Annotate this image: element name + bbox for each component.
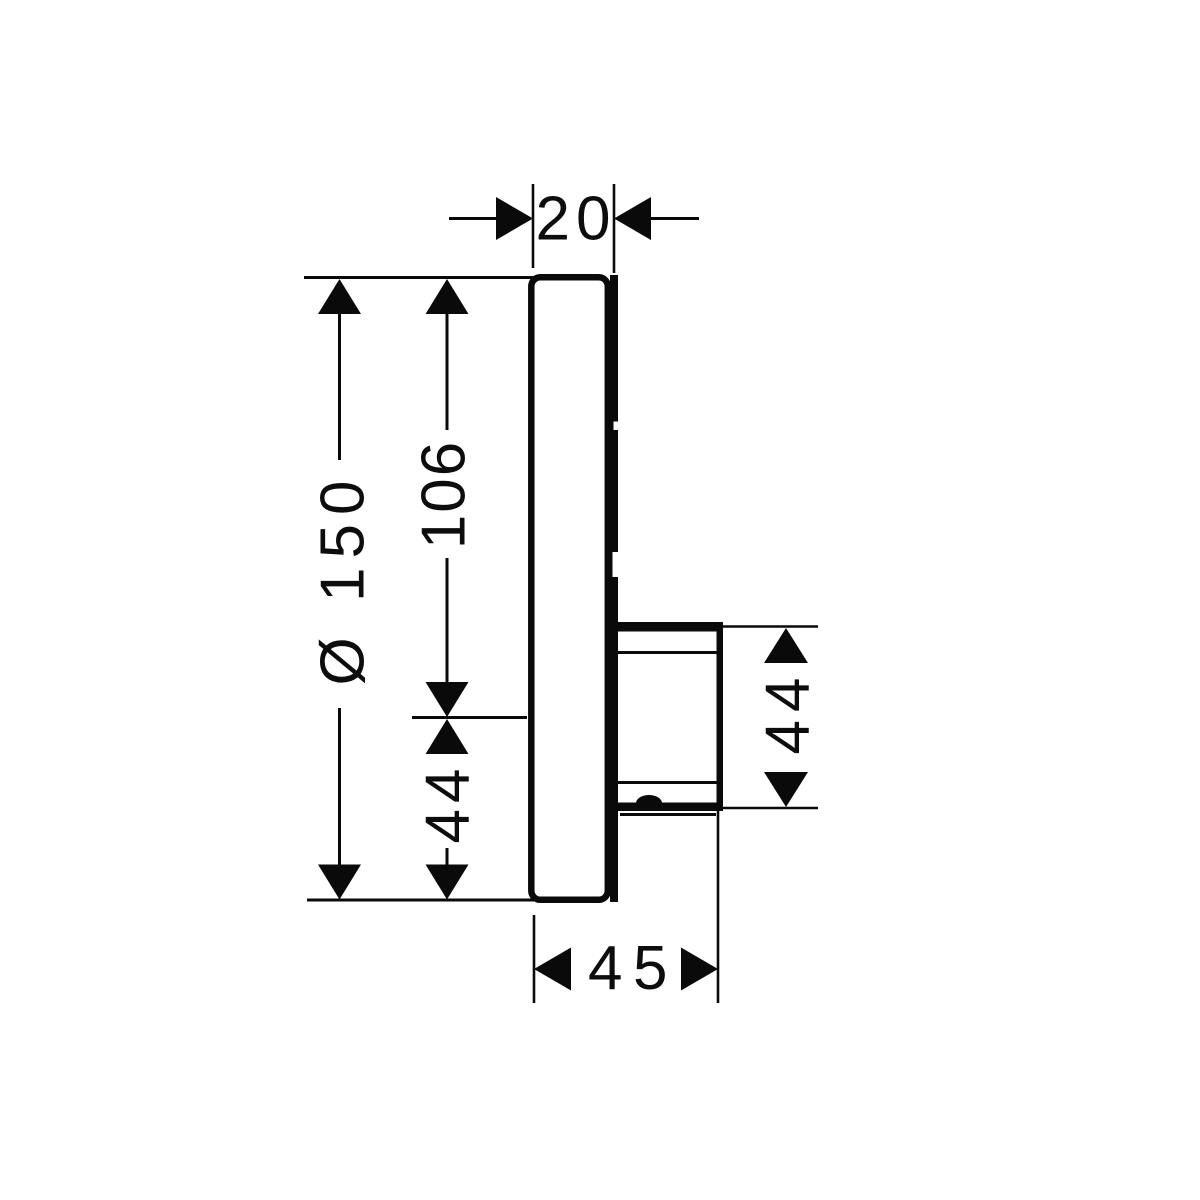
bottom extension line left dims (307, 899, 548, 902)
dim 44 right bottom extension line (723, 807, 818, 810)
svg-text:Ø 150: Ø 150 (309, 472, 378, 686)
center reference line (412, 716, 527, 719)
dim 20 right extension line (613, 184, 616, 273)
dim 150 lower line (338, 708, 341, 868)
strip notch lower (613, 552, 619, 577)
plate back strip (610, 275, 618, 902)
dim 44 right top extension line (723, 625, 818, 628)
body box bottom edge (618, 803, 719, 812)
dim 106 lower line (446, 558, 449, 683)
dim 150 upper line (338, 296, 341, 460)
escutcheon plate outline (531, 277, 608, 900)
dim 106 upper line (446, 296, 449, 430)
svg-text:44: 44 (754, 670, 823, 755)
dim 20 left lead line (449, 217, 497, 220)
dim 106 top arrow (426, 279, 469, 314)
dim 44 left bottom arrow (426, 865, 469, 900)
dim 20 left arrow (496, 197, 533, 240)
dim 150 top arrow (318, 279, 361, 314)
body box under line (620, 813, 716, 816)
dim 44 right down arrow (764, 772, 808, 807)
dim 106 bottom arrow (426, 682, 469, 717)
body box right edge (717, 622, 724, 811)
strip notch upper (614, 422, 619, 431)
body box top edge (612, 622, 723, 632)
body box bump detail (636, 795, 662, 803)
dim 45 left arrow (534, 948, 571, 991)
dim 45 right arrow (681, 948, 718, 991)
dim 44 left top arrow (426, 719, 469, 754)
dim 20 right arrow (614, 197, 651, 240)
body box inner line upper (618, 651, 717, 654)
dim 45 right extension line (717, 811, 720, 1003)
dim 20 right lead line (650, 217, 699, 220)
dim 150 bottom arrow (318, 865, 361, 900)
svg-text:20: 20 (536, 185, 617, 254)
svg-text:106: 106 (410, 440, 479, 549)
svg-text:44: 44 (414, 763, 483, 844)
dim 44 left lower line (446, 848, 449, 866)
dim 20 left extension line (532, 184, 535, 268)
dim 45 left extension line (533, 915, 536, 1003)
top extension line left dims (304, 276, 548, 279)
dim 44 right up arrow (764, 628, 808, 663)
svg-text:45: 45 (588, 934, 678, 1003)
body box inner line lower (618, 781, 717, 784)
